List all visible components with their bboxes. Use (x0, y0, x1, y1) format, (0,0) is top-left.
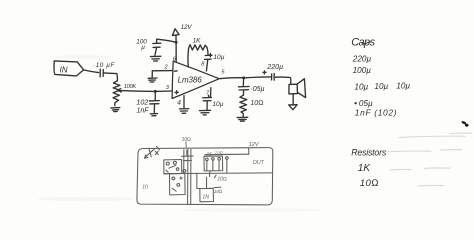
svg-text:100µ: 100µ (353, 66, 372, 75)
svg-text:100K: 100K (124, 84, 137, 90)
capacitor C 10u gain lead (207, 47, 208, 54)
wire: C-in to pot (104, 73, 118, 81)
svg-text:10: 10 (142, 184, 148, 190)
speaker LS1 cone (298, 79, 306, 98)
svg-text:10Ω: 10Ω (360, 178, 379, 189)
wire: .05u to 10ohm (242, 90, 244, 95)
power arrow 12V (172, 29, 179, 36)
wire: pot wiper to pin 3 (122, 90, 172, 93)
note bullet (354, 102, 356, 104)
node: supply junction (175, 41, 178, 44)
wire: pin 5 output (219, 77, 242, 80)
ground (pin 2) (148, 78, 157, 82)
capacitor C-in 10uF (100, 69, 103, 77)
capacitor C 10u bypass lower lead (206, 101, 208, 110)
ground (100u) (151, 56, 161, 61)
svg-text:10µ: 10µ (374, 82, 388, 91)
layout tick below cluster (209, 171, 216, 178)
ground (pot) (111, 108, 120, 112)
paper smudge (50, 55, 114, 59)
notes swoosh (362, 42, 371, 44)
op-amp U1 LM386 triangle (172, 61, 219, 98)
svg-text:µ: µ (141, 44, 145, 51)
wire: gain cap to pin 8 (206, 59, 207, 71)
layout rail vertical b (187, 149, 189, 203)
wire: supply to C 100u (157, 39, 177, 43)
capacitor C 10u bypass plates (203, 98, 212, 101)
minus sign pin 2 (174, 70, 177, 72)
plus sign 220u (263, 71, 266, 74)
plus sign gain cap (209, 54, 212, 57)
svg-text:10µ: 10µ (396, 82, 410, 91)
ground (pin 7) (199, 110, 210, 115)
capacitor C 100u lower lead (155, 47, 157, 55)
wire: C 220u to speaker (275, 77, 291, 84)
svg-text:OUT: OUT (253, 160, 265, 166)
svg-text:1K: 1K (193, 38, 202, 45)
faint pencil streaks (387, 133, 472, 186)
svg-text:220µ: 220µ (352, 55, 372, 64)
svg-text:1K: 1K (358, 163, 372, 174)
layout tick top center (185, 142, 187, 148)
resistor R 10ohm body (240, 95, 247, 116)
capacitor C .05u lead (242, 78, 244, 86)
paper smudge (180, 208, 320, 212)
layout scribble arrow top-left (144, 147, 159, 159)
svg-text:1nF: 1nF (137, 108, 150, 115)
ground (1nF) (150, 114, 157, 116)
layout scribble x (155, 151, 158, 155)
layout pad near rails (183, 170, 186, 173)
layout output cluster outline (204, 156, 223, 171)
layout IN box (200, 188, 214, 202)
svg-text:12V: 12V (249, 142, 260, 148)
pin 7 tick mark (207, 95, 210, 97)
node: wiper junction (154, 90, 157, 93)
svg-text:10µ: 10µ (354, 83, 368, 92)
layout step trace (197, 173, 200, 188)
layout rail vertical a (183, 150, 185, 173)
svg-text:10µ: 10µ (213, 54, 224, 61)
layout component B marks (172, 177, 182, 191)
wire: output junction to C 220u (245, 76, 271, 79)
svg-text:220: 220 (214, 151, 223, 156)
svg-text:1N: 1N (202, 194, 209, 200)
capacitor C 220u plates (272, 74, 275, 81)
layout mark near IN (214, 186, 221, 189)
speaker LS1 frame (289, 84, 298, 94)
input connector J1 "IN" (54, 61, 84, 76)
svg-text:IN: IN (60, 66, 68, 75)
capacitor C 1nF lower lead (153, 104, 155, 113)
capacitor C .05u plates (239, 87, 250, 91)
pin 7 lead (210, 88, 212, 98)
layout rail vertical c (190, 149, 192, 203)
svg-text:10Ω: 10Ω (217, 177, 227, 183)
svg-text:·05µ: ·05µ (250, 86, 264, 93)
pin 4 lead (183, 96, 185, 108)
svg-text:10Ω: 10Ω (182, 137, 192, 143)
wire: pin 2 to ground (152, 71, 172, 78)
svg-text:220µ: 220µ (266, 64, 283, 71)
layout IN box lead (206, 177, 208, 188)
wire: IN to C-in (84, 70, 99, 73)
layout rail horizontal mid (164, 172, 272, 175)
paper smudge (37, 197, 133, 201)
svg-text:Lm386: Lm386 (178, 76, 203, 85)
layout component B pads (172, 177, 175, 180)
layout sketch outer board (137, 148, 273, 205)
layout 12V stub (248, 148, 250, 154)
svg-text:10µ: 10µ (212, 101, 223, 108)
svg-text:12V: 12V (181, 24, 193, 31)
wire: 12V rail to pin 6 (175, 35, 177, 62)
layout component A marks (166, 165, 176, 172)
resistor R 1K left lead (187, 48, 190, 67)
resistor R 1K body (189, 45, 207, 51)
svg-text:1nF (102): 1nF (102) (355, 108, 397, 118)
mouse cursor speck (461, 120, 468, 126)
svg-text:05µ: 05µ (359, 99, 373, 108)
layout output cluster pads (206, 158, 209, 161)
ground (speaker) (289, 105, 297, 110)
capacitor C 1nF plates (149, 101, 159, 104)
svg-text:102: 102 (136, 99, 148, 107)
svg-text:10Ω: 10Ω (214, 189, 223, 194)
svg-text:·10 µF: ·10 µF (93, 62, 115, 69)
layout output cluster leads (207, 159, 227, 173)
wire: speaker to ground (292, 94, 294, 105)
svg-text:10Ω: 10Ω (250, 100, 263, 107)
layout cap ticks (182, 150, 194, 161)
plus sign pin 3 (175, 91, 178, 94)
layout component A outline (164, 160, 182, 174)
potentiometer 100K body (113, 81, 120, 106)
node: output junction (242, 76, 245, 79)
layout rail horizontal upper (205, 153, 249, 156)
capacitor C 1nF lead (154, 91, 156, 100)
svg-text:Caps: Caps (351, 36, 375, 48)
potentiometer wiper arrow (118, 88, 122, 92)
capacitor C 100u plates (153, 43, 161, 47)
layout component A pads (166, 162, 169, 165)
ground (zobel) (237, 117, 248, 121)
capacitor C 10u gain plates (205, 55, 212, 59)
ground (pin 4) (179, 109, 188, 114)
layout component B outline (170, 173, 186, 195)
svg-text:4: 4 (177, 99, 181, 106)
svg-text:Resistors: Resistors (351, 147, 387, 157)
svg-text:.05: .05 (205, 152, 212, 157)
